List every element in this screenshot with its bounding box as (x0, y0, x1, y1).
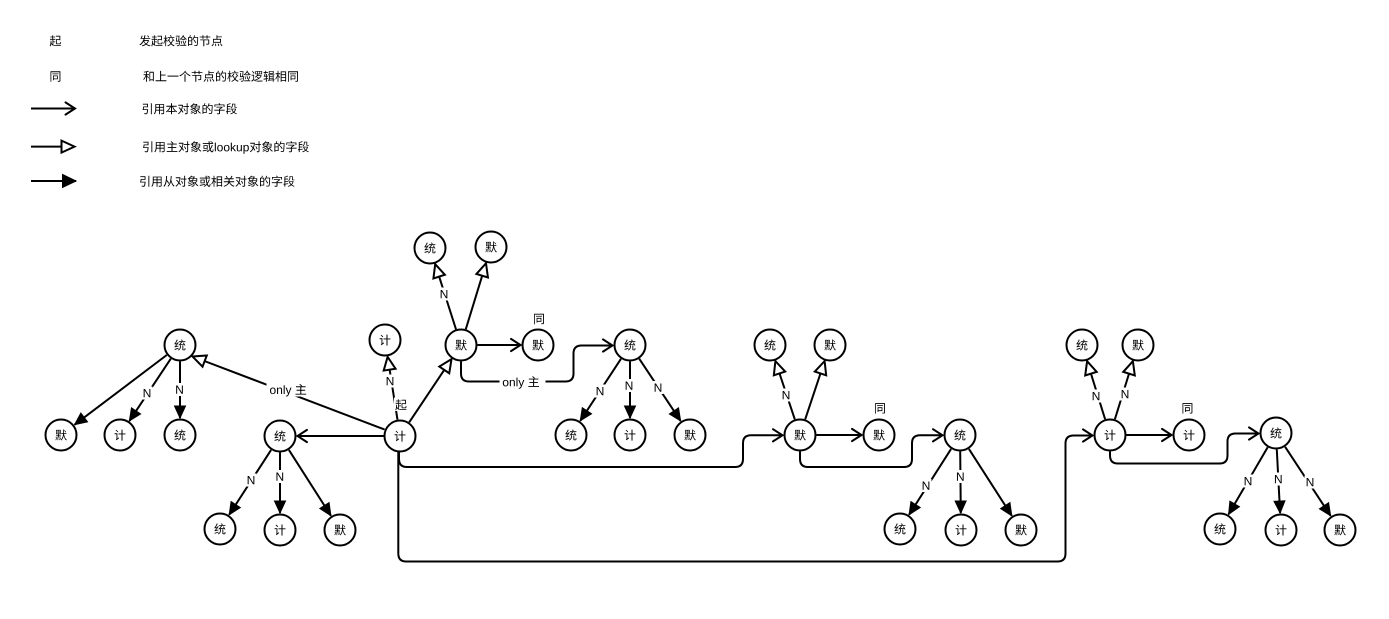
wire C11->D4 detail arrow (N) (909, 449, 951, 515)
node C14 统 (1261, 418, 1292, 449)
wire B3->A2 lookup arrow (466, 263, 486, 329)
wire C9->C11 rounded orthogonal (800, 435, 943, 467)
node B3 默 (446, 330, 477, 361)
label N on C14->D7 (1243, 475, 1254, 488)
wire C5->B3 lookup arrow (409, 359, 451, 422)
node B5 统 (615, 330, 646, 361)
label N on B5->C8 (653, 381, 664, 394)
wire B3->A1 lookup arrow (N) (435, 264, 456, 329)
label N on C14->D8 (1273, 473, 1284, 486)
legend arrow: filled (reference detail/related object field) (31, 180, 76, 182)
wire C4->D1 detail arrow (N) (229, 450, 271, 515)
node D7 统 (1205, 514, 1236, 545)
legend text: 引用从对象或相关对象的字段 (140, 176, 294, 187)
node D1 统 (205, 514, 236, 545)
label N on C11->D5 (955, 470, 966, 483)
node C9 默 (785, 420, 816, 451)
label N on B5->C7 (624, 379, 635, 392)
wire C5->B1 lookup arrow (only 主) (193, 357, 385, 430)
legend: origin-node symbol 起 (50, 35, 61, 46)
node D6 默 (1006, 515, 1037, 546)
label N on B5->C6 (595, 385, 606, 398)
legend: same-logic symbol 同 (51, 71, 61, 82)
label only 主 on B3->B5 (500, 375, 546, 389)
node D5 计 (946, 515, 977, 546)
node B6 统 (755, 330, 786, 361)
node C13 计 (1174, 420, 1205, 451)
wire B1->C2 detail arrow (N) (129, 359, 170, 421)
wire C12->B9 lookup arrow (N) (1115, 361, 1133, 419)
wire B5->C6 detail arrow (N) (580, 359, 621, 421)
wire C12->C14 rounded orthogonal (1110, 434, 1259, 464)
node D3 默 (325, 515, 356, 546)
node C1 默 (46, 420, 77, 451)
wire C12->B8 lookup arrow (N) (1087, 361, 1105, 419)
label N on C12->B8 (1091, 390, 1102, 403)
label 同 above B4 (534, 314, 544, 325)
node C5 计 (385, 421, 416, 452)
wire C14->D9 detail arrow (N) (1285, 447, 1331, 516)
wire C14->D8 detail arrow (N) (1277, 450, 1280, 514)
wire B5->C8 detail arrow (N) (639, 359, 680, 421)
wire B1->C1 detail arrow (75, 355, 167, 425)
label N on C4->D2 (274, 470, 285, 483)
node C8 默 (675, 420, 706, 451)
wire B3->B4 own-field arrow (478, 344, 521, 346)
node B2 计 (370, 325, 401, 356)
node D8 计 (1266, 515, 1297, 546)
legend arrow: open (reference own object field) (31, 108, 75, 110)
node D4 统 (885, 514, 916, 545)
node B1 统 (165, 330, 196, 361)
label N on C4->D1 (246, 474, 257, 487)
node D2 计 (265, 515, 296, 546)
label 起 on C5->B2 (origin marker) (394, 398, 408, 412)
node C4 统 (265, 421, 296, 452)
label N on C12->B9 (1120, 388, 1131, 401)
wire C5->C4 own-field arrow (298, 435, 384, 437)
node B7 默 (815, 330, 846, 361)
node D9 默 (1325, 515, 1356, 546)
wire C5->C12 long bottom rounded orthogonal (398, 436, 1092, 562)
wire C4->D3 detail arrow (289, 450, 331, 516)
node C3 统 (165, 420, 196, 451)
wire B5->C7 detail arrow (N) (629, 362, 631, 419)
node B9 默 (1123, 330, 1154, 361)
label N on C14->D9 (1305, 476, 1316, 489)
node C11 统 (945, 420, 976, 451)
node B8 统 (1067, 330, 1098, 361)
legend text: 和上一个节点的校验逻辑相同 (143, 71, 298, 82)
node C6 统 (556, 420, 587, 451)
label N on C5->B2 (385, 375, 396, 388)
label only 主 on C5->B1 (267, 383, 310, 397)
wire C9->C10 own-field arrow (817, 434, 862, 436)
label N on B3->A1 (439, 288, 450, 301)
legend text: 引用本对象的字段 (143, 103, 237, 114)
label N on B1->C3 (174, 383, 185, 396)
legend text: 引用主对象或lookup对象的字段 (143, 141, 309, 154)
wire C9->B6 lookup arrow (N) (775, 361, 794, 419)
node A2 默 (476, 232, 507, 263)
node C10 默 (864, 420, 895, 451)
node B4 默 (523, 330, 554, 361)
label N on B1->C2 (142, 387, 153, 400)
node C2 计 (105, 420, 136, 451)
label N on C11->D4 (921, 479, 932, 492)
wire C11->D6 detail arrow (969, 449, 1012, 516)
wire B1->C3 detail arrow (N) (179, 362, 181, 419)
wire C5->C9 rounded orthogonal (399, 435, 783, 467)
node A1 统 (415, 233, 446, 264)
wire C4->D2 detail arrow (N) (279, 453, 281, 514)
wire C9->B7 lookup arrow (805, 361, 824, 419)
label 同 above C13 (1183, 403, 1193, 414)
label N on C9->B6 (781, 389, 792, 402)
label 同 above C10 (875, 403, 885, 414)
node C7 计 (615, 420, 646, 451)
wire B3->B5 (only 主) rounded orthogonal (461, 346, 613, 382)
wire C14->D7 detail arrow (N) (1229, 447, 1268, 514)
wire C5->B2 lookup arrow (N) (388, 357, 398, 420)
wire C12->C13 own-field arrow (1127, 434, 1172, 436)
wire C11->D5 detail arrow (N) (959, 452, 962, 514)
legend text: 发起校验的节点 (139, 35, 222, 46)
legend arrow: hollow (reference master/lookup object field) (31, 146, 75, 148)
node C12 计 (1095, 420, 1126, 451)
